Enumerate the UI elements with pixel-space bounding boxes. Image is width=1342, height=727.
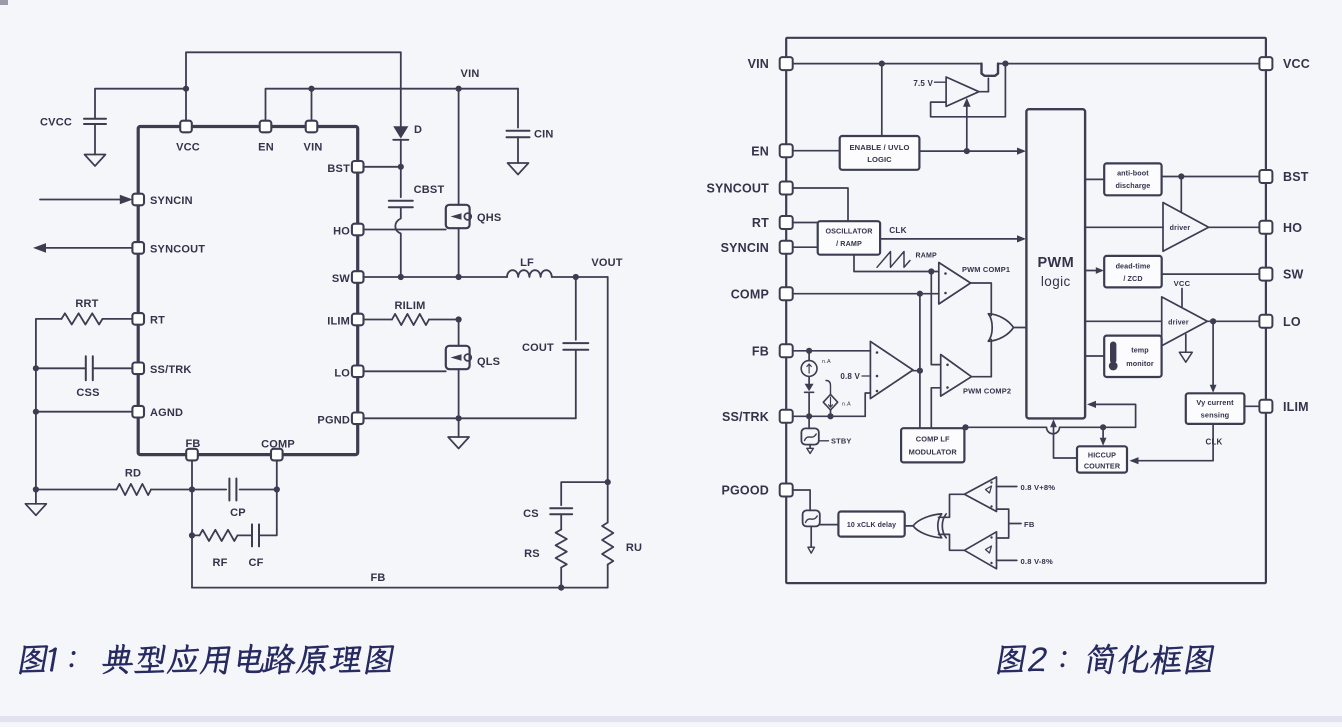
svg-text:VCC: VCC bbox=[1174, 279, 1191, 288]
svg-text:CP: CP bbox=[230, 507, 246, 519]
wire modulator feedback bus bbox=[963, 404, 1136, 433]
wire PGND to ground bbox=[458, 418, 460, 437]
capacitor CVCC bbox=[84, 119, 106, 124]
svg-text:dead-time: dead-time bbox=[1116, 262, 1151, 271]
pin EN fig2 bbox=[780, 144, 793, 157]
wire comparator B output to XOR bbox=[939, 534, 965, 550]
wire SS to amp input bbox=[865, 393, 870, 416]
junction RF node bbox=[189, 532, 195, 538]
pin SYNCIN fig2 bbox=[780, 241, 793, 254]
wire current source to diode bbox=[808, 376, 810, 383]
svg-text:monitor: monitor bbox=[1126, 359, 1154, 368]
wire HO to QHS gate bbox=[364, 229, 446, 231]
junction hiccup branch bbox=[1100, 424, 1106, 430]
wire COMP pin rail bbox=[792, 293, 939, 295]
svg-text:RD: RD bbox=[125, 468, 141, 480]
wire STBY label leader bbox=[819, 440, 829, 442]
node VIN bbox=[456, 86, 462, 92]
gate OR PWM bbox=[988, 314, 1013, 342]
wire diode branch bbox=[400, 52, 402, 126]
wire enable logic to PWM logic bbox=[919, 150, 1023, 152]
wire RT bbox=[103, 318, 133, 320]
svg-text:RRT: RRT bbox=[75, 298, 98, 310]
svg-text:SYNCIN: SYNCIN bbox=[150, 195, 193, 207]
wire RU top bbox=[607, 482, 609, 522]
svg-text:CVCC: CVCC bbox=[40, 116, 72, 128]
wire switch to delay block bbox=[820, 524, 839, 526]
wire CIN branch bbox=[517, 89, 519, 128]
wire FB pin rail bbox=[792, 350, 870, 352]
svg-text:CSS: CSS bbox=[76, 387, 99, 399]
svg-text:CF: CF bbox=[248, 557, 263, 569]
wire RF to CF bbox=[238, 534, 253, 536]
wire dead-time to SW bbox=[1162, 273, 1260, 275]
pin RT bbox=[132, 313, 144, 325]
junction SS node bbox=[806, 413, 812, 419]
pin SYNCOUT bbox=[132, 242, 144, 254]
wire CLK to hiccup bbox=[1132, 424, 1214, 461]
svg-text:CLK: CLK bbox=[1205, 438, 1222, 447]
wire VCC top rail bbox=[186, 52, 401, 120]
wire RT to oscillator bbox=[792, 222, 818, 224]
svg-text:CBST: CBST bbox=[414, 184, 445, 196]
junction CSS rail bbox=[33, 365, 39, 371]
svg-text:QLS: QLS bbox=[477, 356, 500, 368]
junction enable node bbox=[964, 148, 970, 154]
svg-text:CS: CS bbox=[523, 508, 539, 520]
switch PGOOD bbox=[803, 510, 820, 526]
wire PWM logic to hiccup left bbox=[1054, 422, 1078, 459]
pin ILIM fig2 bbox=[1259, 400, 1272, 413]
figure 2 group bbox=[706, 38, 1310, 583]
pin VCC bbox=[180, 121, 192, 133]
svg-text:PGND: PGND bbox=[317, 414, 350, 426]
pin SS/TRK bbox=[132, 363, 144, 375]
resistor RD bbox=[117, 484, 152, 495]
wire EN VIN rail bbox=[266, 89, 519, 121]
wire PWM to driver1 bbox=[1085, 226, 1163, 228]
pin PGOOD fig2 bbox=[780, 484, 793, 497]
svg-text:FB: FB bbox=[370, 572, 385, 584]
inductor LF bbox=[507, 270, 552, 277]
wire RILIM to node bbox=[429, 319, 459, 321]
wire LO to QLS gate bbox=[364, 370, 446, 372]
wire COMP2 output to OR gate bbox=[972, 340, 992, 377]
caption figure 1 bbox=[19, 644, 396, 675]
wire SYNCOUT to oscillator bbox=[792, 188, 848, 221]
junction COMP node bbox=[917, 291, 923, 297]
svg-text:n.A: n.A bbox=[842, 402, 851, 408]
pin SW bbox=[352, 271, 364, 283]
wire anti-boot to BST bbox=[1162, 176, 1260, 178]
wire COUT top bbox=[575, 277, 577, 340]
wire QHS drain from VIN bbox=[458, 89, 460, 205]
current source I2 diamond bbox=[823, 394, 837, 410]
wire CVCC to ground bbox=[94, 124, 96, 155]
pin VCC fig2 bbox=[1259, 57, 1272, 70]
wire PGOOD switch to ground bbox=[810, 526, 812, 547]
junction VIN pin rail bbox=[308, 86, 314, 92]
svg-text:n.A: n.A bbox=[822, 359, 831, 365]
block ENABLE/UVLO LOGIC bbox=[840, 136, 920, 170]
pin AGND bbox=[132, 406, 144, 418]
wire driver1 to HO bbox=[1209, 226, 1260, 228]
block diagram outer border bbox=[786, 38, 1266, 583]
capacitor CBST bbox=[389, 201, 413, 208]
wire VCC to driver2 bbox=[1181, 289, 1183, 307]
wire RU bottom bbox=[561, 565, 608, 588]
svg-text:RT: RT bbox=[752, 216, 769, 230]
junction FB node bbox=[806, 348, 812, 354]
pin VIN bbox=[306, 121, 318, 133]
capacitor CSS bbox=[86, 356, 93, 380]
pin PGND bbox=[352, 413, 364, 425]
pin FB fig2 bbox=[780, 344, 793, 357]
transistor QHS bbox=[446, 205, 470, 228]
wire branch to hiccup counter top bbox=[1102, 427, 1104, 443]
wire QLS source to PGND bbox=[458, 369, 460, 418]
wire threshold low input bbox=[997, 559, 1017, 561]
junction RD rail bbox=[33, 486, 39, 492]
wire EN pin to logic bbox=[792, 150, 840, 152]
wire COMP stem bbox=[276, 460, 278, 489]
svg-text:LO: LO bbox=[1283, 315, 1301, 329]
junction CS/RU node bbox=[605, 479, 611, 485]
pin EN bbox=[260, 121, 272, 133]
svg-text:7.5 V: 7.5 V bbox=[913, 79, 933, 88]
svg-text:ENABLE / UVLO: ENABLE / UVLO bbox=[850, 143, 910, 152]
resistor RRT bbox=[62, 313, 103, 324]
junction VCC feedback bbox=[1002, 61, 1008, 67]
svg-text:VOUT: VOUT bbox=[591, 257, 622, 269]
block Vy current sensing bbox=[1186, 393, 1245, 424]
wire FB stem bbox=[191, 460, 193, 587]
svg-text:CIN: CIN bbox=[534, 129, 554, 141]
svg-text:AGND: AGND bbox=[150, 407, 183, 419]
op-amp error amplifier bbox=[870, 341, 913, 398]
wire COMP2 lower input to modulator bbox=[931, 388, 940, 428]
svg-text:VCC: VCC bbox=[176, 142, 200, 154]
block OSCILLATOR/RAMP bbox=[818, 221, 880, 255]
svg-text:10 xCLK delay: 10 xCLK delay bbox=[847, 522, 896, 529]
pin VIN fig2 bbox=[780, 57, 793, 70]
svg-text:EN: EN bbox=[751, 144, 769, 158]
svg-text:OSCILLATOR: OSCILLATOR bbox=[825, 227, 873, 236]
svg-text:FB: FB bbox=[1024, 520, 1035, 529]
svg-text:SS/TRK: SS/TRK bbox=[150, 364, 192, 376]
pin SW fig2 bbox=[1259, 268, 1272, 281]
wire threshold high input bbox=[997, 486, 1017, 488]
junction VIN to UVLO bbox=[879, 61, 885, 67]
wire COMP net vertical bbox=[919, 294, 921, 429]
svg-text:Vy current: Vy current bbox=[1196, 398, 1234, 407]
wire CS to RS bbox=[560, 514, 562, 529]
pin LO bbox=[352, 366, 364, 378]
wire STBY to ground arrow bbox=[809, 445, 811, 449]
ramp waveform symbol bbox=[877, 252, 910, 268]
svg-text:0.8 V-8%: 0.8 V-8% bbox=[1021, 557, 1053, 566]
wire CIN to ground bbox=[517, 137, 519, 163]
svg-text:VCC: VCC bbox=[1283, 57, 1310, 71]
svg-text:FB: FB bbox=[185, 438, 200, 450]
comparator PWM COMP1 bbox=[939, 263, 971, 305]
wire I2 stem hook bbox=[826, 381, 831, 395]
wire BST to driver1 bbox=[1180, 177, 1182, 213]
svg-text:HICCUP: HICCUP bbox=[1088, 451, 1116, 460]
svg-text:ILIM: ILIM bbox=[327, 316, 350, 328]
comparator PGOOD low bbox=[964, 532, 996, 569]
wire LO sense to Vy block bbox=[1212, 321, 1214, 390]
pin ILIM bbox=[352, 314, 364, 326]
transistor QLS bbox=[446, 346, 470, 369]
current source I1 bbox=[801, 361, 817, 377]
wire PWM to driver2 bbox=[1085, 320, 1162, 322]
wire 0.8V ref input bbox=[862, 375, 870, 377]
resistor RS bbox=[556, 530, 567, 568]
svg-text:SW: SW bbox=[332, 273, 351, 285]
junction ILIM node bbox=[456, 316, 462, 322]
svg-text:VIN: VIN bbox=[748, 57, 769, 71]
block 10 xCLK delay bbox=[838, 512, 904, 537]
svg-text:COMP LF: COMP LF bbox=[916, 435, 950, 444]
svg-text:CLK: CLK bbox=[889, 226, 906, 235]
pin FB bbox=[186, 449, 198, 461]
capacitor CIN bbox=[507, 131, 530, 137]
pin HO bbox=[352, 224, 364, 236]
junction AGND rail bbox=[33, 409, 39, 415]
junction VCC/CVCC bbox=[183, 86, 189, 92]
transistor pass FET 7.5V regulator bbox=[982, 64, 999, 76]
capacitor COUT bbox=[563, 343, 588, 350]
block COMP LF MODULATOR bbox=[901, 428, 964, 462]
wire comparator A output to XOR bbox=[939, 494, 965, 517]
svg-text:PGOOD: PGOOD bbox=[721, 484, 769, 498]
junction RAMP node bbox=[928, 268, 934, 274]
svg-text:RF: RF bbox=[212, 557, 227, 569]
wire I2 to SS rail bbox=[830, 410, 832, 416]
wire QHS source to SW bbox=[458, 228, 460, 277]
svg-text:VIN: VIN bbox=[461, 68, 480, 80]
svg-text:QHS: QHS bbox=[477, 212, 501, 224]
wire FB bottom rail bbox=[192, 587, 561, 589]
svg-text:COUNTER: COUNTER bbox=[1084, 462, 1121, 471]
diode D2 clamp bbox=[805, 384, 814, 392]
pin SYNCOUT fig2 bbox=[780, 182, 793, 195]
wire VIN rail bbox=[792, 63, 1260, 65]
caption figure 2 bbox=[997, 644, 1216, 675]
wire CBST to SW with hop bbox=[395, 207, 400, 277]
wire BST bbox=[364, 166, 401, 168]
wire error amp output bbox=[913, 370, 920, 372]
figure 1 group bbox=[25, 52, 642, 590]
ground CIN bbox=[508, 163, 529, 175]
svg-text:PWM COMP2: PWM COMP2 bbox=[963, 387, 1011, 396]
block dead-time / ZCD bbox=[1104, 256, 1162, 288]
wire RAMP output bbox=[854, 255, 939, 272]
pin SS/TRK fig2 bbox=[780, 410, 793, 423]
wire PGOOD pin bbox=[792, 490, 810, 510]
wire RAMP to COMP2 bbox=[931, 272, 940, 365]
arrow into SYNCIN bbox=[40, 199, 121, 201]
svg-text:0.8 V: 0.8 V bbox=[840, 372, 860, 381]
ground CVCC bbox=[85, 155, 106, 167]
svg-text:PWM: PWM bbox=[1037, 255, 1074, 271]
wire FB to current source bbox=[808, 351, 810, 361]
junction SW/QHS bbox=[456, 274, 462, 280]
wire regulator feedback loop bbox=[931, 64, 1006, 117]
wire driver2 ground stem bbox=[1185, 335, 1187, 353]
wire VOUT down rail bbox=[607, 277, 609, 482]
wire RILIM bbox=[364, 319, 393, 321]
svg-text:LOGIC: LOGIC bbox=[867, 155, 892, 164]
svg-text:COMP: COMP bbox=[731, 287, 769, 301]
block anti-boot discharge bbox=[1104, 163, 1161, 195]
wire SYNCIN to oscillator bbox=[792, 246, 818, 248]
junction CBST/SW bbox=[398, 274, 404, 280]
resistor RU bbox=[602, 523, 613, 565]
block HICCUP COUNTER bbox=[1077, 446, 1127, 472]
wire SS/TRK rail bbox=[792, 415, 865, 417]
op-amp U2 7.5V regulator bbox=[946, 77, 979, 106]
wire RS to FB rail bbox=[560, 568, 562, 588]
pin COMP bbox=[271, 449, 283, 461]
svg-text:HO: HO bbox=[333, 226, 350, 238]
svg-text:BST: BST bbox=[1283, 170, 1309, 184]
junction PGND node bbox=[456, 415, 462, 421]
buffer driver low side bbox=[1162, 297, 1208, 346]
wire CVCC branch bbox=[95, 89, 186, 118]
pin BST fig2 bbox=[1259, 170, 1272, 183]
junction error amp output bbox=[917, 368, 923, 374]
node VOUT bbox=[573, 274, 579, 280]
wire XOR to delay bbox=[905, 525, 913, 527]
svg-text:COUT: COUT bbox=[522, 342, 554, 354]
svg-text:SYNCOUT: SYNCOUT bbox=[706, 182, 769, 196]
wire Vy to ILIM bbox=[1244, 405, 1260, 407]
svg-text:anti-boot: anti-boot bbox=[1117, 169, 1149, 178]
pin SYNCIN bbox=[132, 194, 144, 206]
wire CSS to rail bbox=[36, 367, 86, 369]
switch STBY bbox=[801, 428, 818, 444]
wire RF left stub bbox=[192, 534, 200, 536]
pin BST bbox=[352, 161, 364, 173]
svg-text:SYNCIN: SYNCIN bbox=[721, 241, 769, 255]
wire PWM to anti-boot bbox=[1085, 178, 1104, 180]
svg-text:RAMP: RAMP bbox=[916, 253, 938, 260]
ground left rail bbox=[25, 504, 46, 516]
buffer driver high side bbox=[1163, 203, 1209, 252]
capacitor CF bbox=[252, 524, 259, 546]
junction BST/CBST bbox=[398, 164, 404, 170]
svg-text:BST: BST bbox=[327, 163, 350, 175]
wire PWM to dead-time bbox=[1085, 270, 1101, 272]
svg-text:discharge: discharge bbox=[1115, 181, 1150, 190]
junction BST driver supply bbox=[1178, 173, 1184, 179]
wire COUT bottom bbox=[575, 350, 577, 419]
junction RS/FB rail bbox=[558, 585, 564, 591]
wire PGND rail bbox=[364, 417, 576, 419]
svg-text:EN: EN bbox=[258, 142, 274, 154]
capacitor CP bbox=[229, 479, 236, 501]
wire enable to regulator bbox=[966, 104, 968, 152]
svg-text:0.8 V+8%: 0.8 V+8% bbox=[1021, 483, 1056, 492]
wire QLS drain bbox=[458, 320, 460, 346]
wire OR gate to PWM logic bbox=[1014, 327, 1027, 329]
wire PWM to temp monitor bbox=[1085, 355, 1104, 357]
resistor RF bbox=[200, 530, 238, 541]
wire driver2 to LO bbox=[1207, 320, 1260, 322]
pin LO fig2 bbox=[1259, 315, 1272, 328]
capacitor CS bbox=[550, 508, 572, 514]
wire RD to FB node bbox=[151, 489, 192, 491]
gate XOR pgood bbox=[913, 514, 942, 538]
svg-text:logic: logic bbox=[1041, 274, 1071, 289]
wire CP left bbox=[192, 489, 226, 491]
resistor RILIM bbox=[392, 314, 429, 325]
pin COMP fig2 bbox=[780, 287, 793, 300]
ground PGND bbox=[448, 437, 469, 449]
wire CBST top bbox=[400, 167, 402, 197]
wire SS to STBY switch bbox=[808, 416, 810, 428]
junction LO sense bbox=[1210, 318, 1216, 324]
svg-text:MODULATOR: MODULATOR bbox=[909, 448, 958, 457]
pin HO fig2 bbox=[1259, 221, 1272, 234]
svg-text:STBY: STBY bbox=[831, 437, 852, 446]
svg-text:FB: FB bbox=[752, 344, 769, 358]
junction FB/RD bbox=[189, 486, 195, 492]
block temp monitor bbox=[1104, 336, 1161, 377]
comparator PGOOD high bbox=[964, 477, 996, 512]
wire CS branch top bbox=[561, 482, 608, 505]
wire CP right bbox=[240, 489, 277, 491]
pin RT fig2 bbox=[780, 216, 793, 229]
svg-text:D: D bbox=[414, 124, 422, 136]
svg-text:VIN: VIN bbox=[304, 142, 323, 154]
wire CF to COMP bbox=[259, 490, 277, 536]
wire RRT to left rail bbox=[36, 319, 62, 504]
wire COMP1 output to OR gate bbox=[971, 283, 992, 316]
ground driver2 bbox=[1179, 352, 1192, 362]
arrow out of SYNCOUT bbox=[43, 247, 132, 249]
comparator PWM COMP2 bbox=[941, 355, 972, 397]
svg-text:LF: LF bbox=[520, 257, 534, 269]
junction I2 node bbox=[827, 413, 833, 419]
svg-text:SW: SW bbox=[1283, 268, 1304, 282]
svg-text:driver: driver bbox=[1168, 320, 1189, 327]
junction COMP/CP bbox=[274, 486, 280, 492]
svg-text:SYNCOUT: SYNCOUT bbox=[150, 243, 205, 255]
svg-text:LO: LO bbox=[334, 367, 350, 379]
IC U1 body bbox=[138, 127, 358, 455]
svg-text:SS/TRK: SS/TRK bbox=[722, 410, 769, 424]
svg-text:sensing: sensing bbox=[1201, 411, 1230, 420]
block PWM logic bbox=[1026, 109, 1085, 418]
wire 7.5V ref input bbox=[935, 81, 947, 83]
svg-text:RU: RU bbox=[626, 542, 642, 554]
wire FB bracket bbox=[997, 509, 1022, 538]
wire LF to VOUT bbox=[552, 276, 608, 278]
wire SW rail bbox=[364, 276, 508, 278]
junction modulator bus bbox=[962, 424, 968, 430]
svg-text:RILIM: RILIM bbox=[395, 300, 426, 312]
wire AGND bbox=[36, 411, 132, 413]
svg-text:PWM COMP1: PWM COMP1 bbox=[962, 265, 1010, 274]
wire SS/TRK to CSS bbox=[93, 367, 132, 369]
svg-text:/ ZCD: / ZCD bbox=[1123, 274, 1142, 283]
svg-text:RS: RS bbox=[524, 548, 540, 560]
svg-text:temp: temp bbox=[1131, 346, 1149, 355]
wire VIN to enable logic bbox=[881, 64, 883, 136]
